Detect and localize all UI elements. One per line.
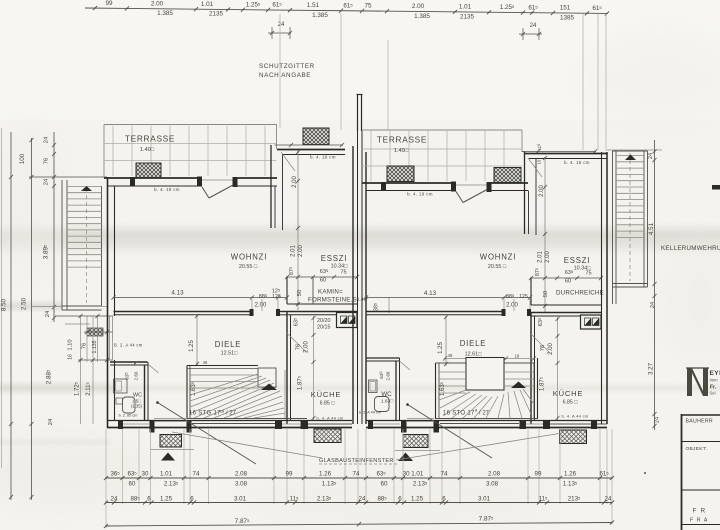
- svg-text:2.00: 2.00: [548, 343, 554, 355]
- dim extensions at wohnzi door right: [503, 299, 505, 311]
- mini dim 24 right of axis: [519, 33, 542, 35]
- svg-text:76: 76: [82, 343, 88, 349]
- diele dim vertical left: [196, 315, 198, 366]
- svg-text:1.26: 1.26: [319, 471, 332, 478]
- entrance arrow right: [398, 453, 413, 462]
- stair left unit: [186, 366, 188, 420]
- svg-text:2.68: 2.68: [386, 371, 391, 380]
- wc left unit: [110, 361, 148, 363]
- svg-text:30: 30: [142, 471, 149, 478]
- svg-text:ESSZI: ESSZI: [564, 256, 591, 265]
- hatched pillar at party wall top: [303, 128, 329, 145]
- svg-text:2.00: 2.00: [304, 341, 310, 353]
- stair right treads left flight: [439, 371, 466, 373]
- esszi dim line vertical left unit: [297, 150, 299, 310]
- bottom dim row3 line: [106, 523, 612, 527]
- svg-text:24: 24: [44, 136, 50, 143]
- outer wall right of building: [601, 152, 603, 424]
- dim extensions at wohnzi door left: [251, 299, 253, 311]
- paper left edge line: [1, 128, 3, 468]
- svg-text:1.01: 1.01: [459, 4, 472, 11]
- door posts wohnzi-diele gap left: [250, 309, 254, 316]
- esszi leader diagonal left: [281, 152, 295, 171]
- svg-text:24: 24: [655, 417, 661, 423]
- wc fixtures left: [114, 379, 128, 393]
- svg-text:2.00: 2.00: [539, 185, 545, 197]
- svg-text:b. 4. A 44 cm: b. 4. A 44 cm: [561, 414, 588, 419]
- svg-text:WOHNZI: WOHNZI: [480, 253, 516, 262]
- wohnzi interior dim line left: [113, 297, 287, 299]
- entrance door diagonal left: [158, 403, 257, 465]
- top dimension chain line: [85, 8, 607, 13]
- bottom outer wall right unit: [366, 420, 607, 422]
- outdoor stair arrow: [81, 186, 92, 191]
- svg-text:99: 99: [286, 471, 293, 478]
- svg-text:1.10: 1.10: [68, 339, 74, 350]
- svg-text:1.26: 1.26: [564, 471, 577, 478]
- svg-text:2135: 2135: [460, 13, 475, 20]
- outdoor stair treads: [67, 186, 102, 188]
- esszi lower dim line right: [531, 277, 601, 279]
- party wall screen above terraces: [357, 95, 359, 131]
- svg-text:OBJEKT:: OBJEKT:: [686, 446, 708, 452]
- svg-text:2.50: 2.50: [21, 297, 28, 310]
- left dim chain 2.50: [31, 138, 33, 500]
- kitchen dim chain left: [313, 316, 315, 420]
- keller dim chain: [654, 140, 656, 430]
- svg-text:16 STG 17: 16 STG 17: [189, 411, 221, 417]
- kitchen dim labels right: [531, 334, 550, 353]
- svg-text:46: 46: [448, 353, 453, 358]
- wc fixtures right: [369, 380, 378, 393]
- svg-text:24: 24: [605, 496, 612, 503]
- svg-text:6: 6: [398, 496, 402, 503]
- terrace wall / building top wall right unit: [362, 182, 452, 184]
- extension lines to bottom dims: [105, 429, 107, 504]
- kitchen dim chain right: [557, 317, 559, 420]
- svg-text:WC: WC: [381, 391, 392, 398]
- stair right direction arrow: [511, 382, 526, 389]
- entrance threshold right: [407, 418, 434, 420]
- svg-text:1.385: 1.385: [414, 13, 430, 20]
- esszi dim line vertical right unit: [544, 157, 546, 312]
- keller stair dashed walk line: [629, 153, 631, 281]
- kitchen top wall left unit: [287, 311, 357, 313]
- svg-text:76: 76: [44, 158, 50, 164]
- terrace pillar hatched left: [136, 163, 161, 178]
- bottom dim row1 ticks: [104, 476, 108, 480]
- svg-text:24: 24: [48, 418, 54, 425]
- kamin block outline left: [286, 277, 288, 304]
- svg-text:1.25: 1.25: [438, 342, 444, 354]
- svg-text:2.08: 2.08: [488, 471, 501, 478]
- svg-text:50: 50: [543, 291, 549, 297]
- svg-text:24: 24: [278, 22, 285, 28]
- bottom dim row1 line: [106, 477, 612, 479]
- svg-text:74: 74: [353, 471, 360, 478]
- svg-text:b. 4. A 44 cm: b. 4. A 44 cm: [316, 416, 343, 421]
- svg-text:125: 125: [519, 294, 528, 300]
- svg-text:74: 74: [193, 471, 200, 478]
- svg-text:KELLERUMWEHRU: KELLERUMWEHRU: [661, 245, 720, 252]
- svg-text:1.25: 1.25: [160, 496, 173, 503]
- svg-text:16 STO 17: 16 STO 17: [443, 411, 475, 417]
- wc door swing left: [148, 364, 159, 373]
- svg-text:1.40□: 1.40□: [140, 147, 155, 153]
- svg-text:151: 151: [560, 5, 571, 12]
- mini dim 24 left of axis: [268, 32, 291, 34]
- svg-text:NACH ANGABE: NACH ANGABE: [259, 72, 311, 79]
- party wall between units: [352, 146, 354, 424]
- svg-text:2.00: 2.00: [412, 3, 425, 10]
- svg-text:3.27: 3.27: [648, 362, 655, 375]
- svg-text:74: 74: [441, 471, 448, 478]
- entrance arrow left: [161, 453, 175, 461]
- svg-text:Imm: Imm: [710, 378, 719, 383]
- svg-text:3.08: 3.08: [235, 481, 248, 488]
- svg-text:B. 2. A 44 cm: B. 2. A 44 cm: [114, 343, 143, 348]
- esszi lower dim line left: [287, 276, 357, 278]
- svg-text:18: 18: [220, 409, 225, 414]
- stair right unit: [435, 363, 437, 419]
- glass block window kitchen right: [560, 430, 587, 444]
- svg-text:1385: 1385: [560, 14, 575, 21]
- svg-text:20.55 □: 20.55 □: [488, 264, 507, 270]
- svg-text:20.55 □: 20.55 □: [239, 264, 258, 270]
- svg-text:24: 24: [648, 153, 654, 159]
- svg-text:Sei: Sei: [710, 391, 716, 396]
- svg-text:16: 16: [68, 354, 74, 360]
- terrace wall / building top wall left unit: [104, 177, 198, 179]
- terrace right floor grid: [370, 131, 372, 181]
- outdoor stair bottom: [62, 305, 102, 307]
- svg-text:/ 27: / 27: [226, 411, 237, 417]
- svg-text:KÜCHE: KÜCHE: [311, 390, 342, 399]
- svg-text:24: 24: [530, 23, 537, 29]
- svg-text:4.13: 4.13: [424, 290, 437, 297]
- svg-text:2.00: 2.00: [506, 303, 518, 309]
- keller stair outline: [612, 151, 614, 287]
- kitchen left wall left unit: [286, 312, 288, 425]
- terrace left floor grid: [112, 126, 114, 177]
- svg-text:KAMIN=: KAMIN=: [318, 289, 343, 296]
- svg-text:24: 24: [650, 302, 656, 308]
- svg-text:2.01: 2.01: [538, 251, 544, 263]
- svg-text:60: 60: [381, 481, 388, 488]
- svg-text:2.00: 2.00: [298, 245, 304, 257]
- left dim chain 8.50: [10, 132, 12, 500]
- left dim chain 24-76-24 / 3.895: [53, 132, 55, 322]
- durchreiche box right: [530, 278, 532, 305]
- svg-text:24: 24: [45, 310, 51, 317]
- title block frame: [681, 414, 683, 530]
- esszi top dim line right unit: [522, 151, 597, 153]
- svg-text:8.50: 8.50: [1, 298, 8, 311]
- svg-text:TERRASSE: TERRASSE: [125, 134, 175, 144]
- glass block window entrance right: [403, 435, 428, 448]
- svg-text:b. 4. 19 cm: b. 4. 19 cm: [310, 155, 336, 160]
- leader to left glass block: [172, 432, 322, 458]
- outdoor stair center dashed walk line: [86, 188, 88, 303]
- svg-text:1.25: 1.25: [411, 496, 424, 503]
- svg-text:1.25: 1.25: [189, 340, 195, 352]
- bottom wall door posts left unit: [118, 420, 123, 429]
- scan shading band left margin: [0, 299, 62, 313]
- svg-text:b. 2. A 44 cm: b. 2. A 44 cm: [359, 411, 381, 415]
- hatched window sill left wall: [87, 328, 103, 336]
- bottom dim row2 ticks: [104, 500, 108, 504]
- svg-text:b. 4. 15 cm: b. 4. 15 cm: [564, 160, 590, 165]
- svg-text:WOHNZI: WOHNZI: [231, 253, 267, 262]
- keller stair arrow: [625, 155, 636, 161]
- svg-text:24: 24: [111, 496, 118, 503]
- svg-text:46: 46: [203, 360, 208, 365]
- svg-text:DIELE: DIELE: [460, 339, 487, 348]
- svg-text:10: 10: [537, 159, 542, 164]
- svg-text:1.40□: 1.40□: [394, 148, 409, 154]
- svg-text:GLASBAUSTEINFENSTER: GLASBAUSTEINFENSTER: [319, 458, 394, 464]
- dim extension at 38.5 left: [388, 297, 390, 313]
- svg-text:50: 50: [297, 290, 303, 296]
- entrance threshold left: [154, 418, 187, 420]
- diele dim vertical right: [445, 316, 447, 366]
- svg-text:99: 99: [535, 471, 542, 478]
- wohnzi interior dim line right: [366, 297, 531, 299]
- svg-text:75: 75: [585, 271, 591, 277]
- door jambs terrace right: [381, 182, 386, 191]
- svg-text:24: 24: [44, 178, 50, 185]
- diele top dim line right: [445, 358, 535, 360]
- scan shading band middle: [0, 222, 720, 256]
- svg-text:125: 125: [272, 294, 281, 300]
- svg-text:EYD: EYD: [710, 370, 720, 377]
- stair left direction arrow: [261, 384, 277, 391]
- svg-text:75: 75: [340, 270, 346, 276]
- svg-text:1.135: 1.135: [92, 340, 98, 353]
- svg-text:2.00: 2.00: [545, 251, 551, 263]
- svg-text:3.08: 3.08: [486, 481, 499, 488]
- svg-text:BAUHERR: BAUHERR: [686, 419, 713, 425]
- svg-text:1.63□: 1.63□: [381, 399, 393, 405]
- svg-text:60: 60: [565, 279, 571, 285]
- esszi top wall right unit: [524, 153, 607, 155]
- svg-text:99: 99: [105, 0, 113, 7]
- svg-text:76: 76: [540, 345, 546, 351]
- svg-text:20/20: 20/20: [317, 318, 331, 324]
- extension lines from top dims: [279, 14, 281, 128]
- svg-text:1.385: 1.385: [312, 12, 328, 19]
- svg-text:/ 27: / 27: [479, 411, 490, 417]
- keller stair treads: [616, 155, 644, 157]
- svg-text:18: 18: [515, 354, 520, 359]
- wc door swing right: [400, 361, 411, 370]
- bottom dim row2 line: [106, 502, 612, 504]
- glass block window entrance left: [160, 435, 182, 448]
- svg-text:6: 6: [147, 496, 151, 503]
- svg-text:b. 2. 85 cm: b. 2. 85 cm: [119, 414, 138, 418]
- svg-text:12.61□: 12.61□: [465, 352, 482, 358]
- svg-text:2.00: 2.00: [255, 303, 267, 309]
- entrance door diagonal right: [408, 405, 493, 459]
- stair right treads right flight: [504, 371, 534, 373]
- svg-text:100: 100: [19, 153, 26, 164]
- bottom wall door posts right unit: [368, 420, 373, 429]
- terrace door leaves right open V: [456, 192, 463, 203]
- svg-text:4.51: 4.51: [648, 222, 655, 235]
- svg-text:ESSZI: ESSZI: [321, 254, 348, 263]
- svg-text:6.85 □: 6.85 □: [563, 400, 579, 406]
- stair right fan treads: [439, 390, 466, 400]
- svg-text:24: 24: [359, 496, 366, 503]
- wohnzi-diele wall right unit: [366, 311, 504, 313]
- svg-text:DIELE: DIELE: [215, 340, 242, 349]
- svg-text:30 1.01: 30 1.01: [403, 471, 424, 478]
- outdoor stair left rails: [61, 180, 63, 310]
- terrace door leaves left open V: [202, 187, 209, 198]
- terrace right outline: [362, 129, 522, 131]
- wc right unit: [366, 357, 400, 359]
- svg-text:1.01: 1.01: [201, 1, 214, 8]
- svg-text:2.60: 2.60: [134, 371, 139, 380]
- svg-text:20/15: 20/15: [317, 325, 331, 331]
- svg-text:b. 4. 19 cm: b. 4. 19 cm: [407, 192, 433, 197]
- svg-text:TERRASSE: TERRASSE: [377, 135, 427, 145]
- svg-text:b. 4. 19 cm: b. 4. 19 cm: [154, 187, 180, 192]
- svg-text:6.85 □: 6.85 □: [320, 401, 336, 407]
- wohnzi-diele wall left unit: [114, 311, 253, 313]
- svg-text:FORMSTEINE.S: FORMSTEINE.S: [308, 297, 357, 304]
- svg-text:F R: F R: [693, 508, 707, 515]
- leader to right glass block: [396, 433, 562, 460]
- wohnzi-esszi divider wall right: [524, 152, 526, 235]
- wohnzi-esszi divider wall: [270, 145, 272, 228]
- bottom outer wall left unit: [107, 420, 352, 422]
- svg-text:3.01: 3.01: [234, 496, 247, 503]
- svg-text:DURCHREICHE: DURCHREICHE: [556, 290, 604, 297]
- svg-text:(1.35): (1.35): [131, 404, 143, 409]
- svg-text:2.08: 2.08: [235, 471, 248, 478]
- svg-text:2.00: 2.00: [292, 176, 298, 188]
- esszi top dim line left unit: [275, 144, 344, 146]
- kitchen dim labels left: [287, 333, 306, 352]
- keller stair side wall continuation: [612, 287, 614, 304]
- svg-text:60: 60: [129, 481, 136, 488]
- top dimension ticks: [93, 6, 97, 10]
- company logo N: [687, 368, 708, 396]
- svg-text:75: 75: [364, 3, 372, 10]
- svg-text:60: 60: [320, 278, 326, 284]
- left wall window dim block: [55, 315, 113, 317]
- chimney symbol box right: [581, 315, 602, 329]
- svg-text:F R A: F R A: [690, 518, 708, 524]
- svg-text:2.00: 2.00: [151, 0, 164, 7]
- svg-text:1.385: 1.385: [157, 10, 173, 17]
- svg-text:6: 6: [442, 496, 446, 503]
- terrace pillars hatched right: [387, 166, 414, 182]
- kitchen left wall right unit: [530, 313, 532, 425]
- stair bottom extension to chain: [32, 306, 63, 308]
- svg-text:2135: 2135: [209, 11, 224, 18]
- svg-text:2.01: 2.01: [291, 245, 297, 257]
- esszi leader diagonal right: [528, 158, 542, 177]
- stair left winder landing: [258, 368, 276, 387]
- svg-text:4.13: 4.13: [171, 290, 184, 297]
- stair left fan treads: [190, 374, 258, 395]
- svg-text:1.01: 1.01: [160, 471, 173, 478]
- outer wall left of building: [107, 177, 109, 428]
- svg-text:12.51□: 12.51□: [221, 351, 238, 357]
- door posts wohnzi-diele gap right: [502, 309, 506, 316]
- kitchen top wall right unit: [531, 312, 601, 314]
- svg-text:1.51: 1.51: [307, 2, 320, 9]
- scan band bottom left: [0, 437, 110, 447]
- terrace left outline: [104, 124, 277, 126]
- svg-text:76: 76: [296, 344, 302, 350]
- chimney symbol box left: [337, 313, 358, 328]
- glass block window kitchen left: [314, 429, 341, 443]
- svg-text:SCHUTZGITTER: SCHUTZGITTER: [259, 63, 315, 70]
- stair right landing: [466, 358, 504, 391]
- left horizontal connector: [29, 176, 107, 178]
- door jambs terrace left: [130, 177, 135, 186]
- svg-text:KÜCHE: KÜCHE: [553, 389, 584, 398]
- svg-text:3.01: 3.01: [478, 496, 491, 503]
- dark mark right edge: [712, 185, 720, 190]
- keller stair top extension line: [607, 149, 662, 151]
- wc top wall dim tick left: [133, 361, 137, 365]
- esszi top wall left unit: [277, 149, 345, 151]
- svg-text:6: 6: [190, 496, 194, 503]
